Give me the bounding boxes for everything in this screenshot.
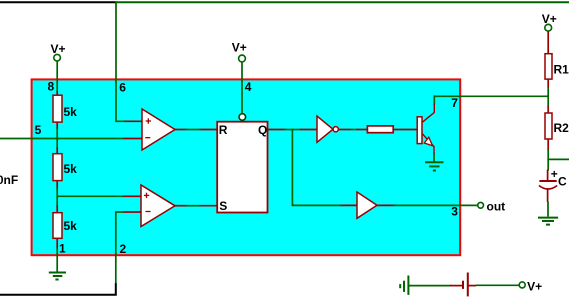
pin number 7 xyxy=(451,96,458,110)
power symbol V+ (top right) xyxy=(542,12,557,31)
wire: top rail to off-page (black) xyxy=(0,1,116,3)
resistor R1 xyxy=(545,54,569,79)
flip-flop U3 (RS latch) xyxy=(217,122,267,213)
svg-text:7: 7 xyxy=(451,96,458,110)
pin number 8 xyxy=(48,80,55,94)
wire: pin 6 threshold drop to comparator + input xyxy=(116,2,144,121)
svg-text:8: 8 xyxy=(48,80,55,94)
label: C plus and name xyxy=(551,167,567,189)
wire: junction to R2 top xyxy=(547,95,549,114)
ground (transistor emitter) xyxy=(425,162,443,170)
inverter U4 xyxy=(317,116,338,142)
svg-text:R2: R2 xyxy=(554,121,569,135)
wire: pin 2 trigger net to lower comparator - input xyxy=(116,212,143,284)
buffer U5 (output) xyxy=(357,192,377,218)
pin number 5 xyxy=(35,123,42,137)
ground (battery negative, rotated) xyxy=(400,276,408,295)
wire: R1 bottom to junction xyxy=(547,79,549,97)
svg-text:R1: R1 xyxy=(554,63,569,77)
wire: battery negative lead xyxy=(408,285,451,287)
svg-text:5k: 5k xyxy=(64,105,78,119)
pin number 1 xyxy=(59,242,66,256)
IC body (555 timer block, cyan) xyxy=(32,79,461,255)
wire: buffer output to pin 3 node xyxy=(374,204,478,206)
svg-text:2: 2 xyxy=(120,242,127,256)
wire: junction down to capacitor C xyxy=(547,159,550,181)
wire: capacitor to ground xyxy=(547,202,549,217)
wire: pin 5 control-voltage rail to comparator - input xyxy=(0,138,144,140)
battery B1 xyxy=(450,273,476,297)
power symbol V+ (pin 8) xyxy=(51,42,66,61)
resistor 5k (c) xyxy=(53,213,77,239)
pin number 4 xyxy=(245,80,252,94)
svg-text:5k: 5k xyxy=(64,219,78,233)
pin number 6 xyxy=(119,81,126,95)
pin number 3 xyxy=(451,205,458,219)
capacitor C (polarized) xyxy=(539,181,557,202)
svg-text:R: R xyxy=(219,123,228,137)
resistor 5k (a) xyxy=(53,95,77,122)
svg-text:1: 1 xyxy=(59,242,66,256)
wire: right column R1 top lead from V+ xyxy=(547,31,549,55)
svg-text:out: out xyxy=(487,199,506,213)
wire: divider between 5k(b) and 5k(c) xyxy=(56,180,58,214)
comparator U1 (threshold) xyxy=(142,109,175,150)
node V+ (battery) xyxy=(519,280,542,294)
svg-text:V+: V+ xyxy=(527,280,542,294)
svg-text:5: 5 xyxy=(35,123,42,137)
wire: threshold junction to off-page right xyxy=(548,158,569,160)
wire: divider between 5k(a) and 5k(b) xyxy=(56,122,58,155)
svg-text:4: 4 xyxy=(245,80,252,94)
label: 10nF (clipped at left edge) xyxy=(0,173,18,187)
wire: pin 7 discharge rail to R1/R2 junction xyxy=(434,95,549,97)
svg-text:S: S xyxy=(219,199,227,213)
svg-text:10nF: 10nF xyxy=(0,173,18,187)
resistor 5k (b) xyxy=(53,154,77,181)
wire: Q output to inverter and branch xyxy=(267,130,359,206)
svg-text:+: + xyxy=(551,167,558,181)
wire: collector up to pin 7 rail xyxy=(433,95,435,105)
svg-text:3: 3 xyxy=(451,205,458,219)
svg-text:5k: 5k xyxy=(64,162,78,176)
ground (pin 1) xyxy=(49,273,66,280)
svg-text:C: C xyxy=(558,175,567,189)
wire: divider chain pin8 V+ to R top xyxy=(56,61,58,97)
reset bubble (pin 4 input) xyxy=(239,114,246,121)
wire: emitter down to ground xyxy=(433,153,435,162)
pin number 2 xyxy=(120,242,127,256)
node: pin 3 output terminal xyxy=(478,199,505,213)
ground (below C) xyxy=(538,218,558,225)
wire: comparator1 output to R xyxy=(174,129,219,131)
wire: inverter bubble to base resistor xyxy=(338,129,368,131)
svg-text:V+: V+ xyxy=(232,40,247,54)
wire: base resistor to transistor base xyxy=(393,129,419,131)
wire: battery positive to V+ node xyxy=(476,284,520,286)
wire: node2 rail to lower comparator + input xyxy=(57,195,142,197)
power symbol V+ (pin 4) xyxy=(232,40,247,61)
wire: 5k(c) bottom to ground pin 1 xyxy=(56,238,58,272)
wire: top V+ rail (green) xyxy=(115,1,569,3)
resistor R2 xyxy=(545,113,569,139)
wire: comparator2 output to S xyxy=(174,205,219,207)
resistor (base drive) xyxy=(367,126,393,133)
svg-text:Q: Q xyxy=(258,123,267,137)
svg-text:6: 6 xyxy=(119,81,126,95)
comparator U2 (trigger) xyxy=(141,185,175,227)
wire: pin 4 V+ drop to reset bubble xyxy=(241,62,243,114)
transistor Q1 (discharge) xyxy=(417,104,434,154)
wire: R2 bottom to threshold junction xyxy=(547,139,549,161)
wire: pin 2 to off-page (black) xyxy=(0,283,116,294)
